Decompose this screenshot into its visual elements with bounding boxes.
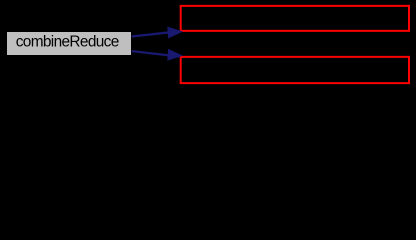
edge to node 1 (midnightblue) <box>132 27 182 38</box>
edge to node 2 (midnightblue) <box>132 49 182 60</box>
node combineReduce (caller, grey filled) <box>7 32 132 56</box>
called node 1 (truncated, red border, top) <box>181 6 409 31</box>
called node 2 (truncated, red border, bottom) <box>181 57 409 83</box>
svg-text:combineReduce: combineReduce <box>16 34 119 51</box>
